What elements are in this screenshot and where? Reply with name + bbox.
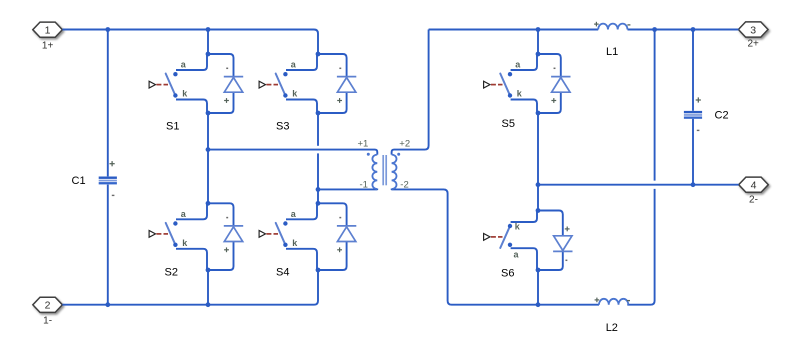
S4 diode triangle [337,227,355,242]
S6 diode plus mark [565,227,570,232]
svg-text:L1: L1 [606,46,618,58]
S6 diode triangle [554,236,572,251]
junction: S2 leg on bottom rail [206,302,211,307]
svg-text:S4: S4 [276,267,289,279]
S2 diode cathode bar [224,225,243,227]
svg-text:-2: -2 [400,179,408,190]
port 1 (1+) connection hexagon [33,22,63,37]
svg-text:2+: 2+ [747,39,759,50]
S3 bottom junction [316,111,321,116]
wire: S3-S4 leg below crossing [317,153,319,203]
S2 cathode wire [176,249,207,270]
S3 switch lever [276,74,286,96]
S5 anode wire [511,54,537,70]
junction: S5 leg on top-right rail [536,27,541,32]
svg-text:S5: S5 [502,118,515,130]
junction: S6 leg on bottom-right rail [536,302,541,307]
wire: S6 leg to bottom-right rail [537,270,539,305]
junction: C2 on out-minus rail [691,182,696,187]
transformer secondary phase dot [397,153,400,156]
capacitor C1 plates [99,177,117,185]
S1 top junction [206,52,211,57]
S1 anode port dot [173,72,177,76]
wire: S1-S2 midpoint leg [207,113,209,203]
S3 gate triangle [259,81,265,88]
S1 cathode port dot [173,93,177,97]
S6 cathode port dot [508,224,512,228]
wire: top-right rail to L1 [429,29,599,31]
S3 diode minus mark [339,68,341,70]
S4 cathode port dot [283,243,287,247]
transformer T1 core [383,155,386,185]
junction: C1 top on top rail [105,27,110,32]
S5 switch lever [500,74,510,96]
S3 anode wire [286,54,317,70]
wire: -1 node to transformer primary bottom [318,188,377,191]
S4 gate dashed line [266,233,278,235]
S3 gate dashed line [266,84,278,86]
S1 diode minus mark [226,68,228,70]
svg-text:+1: +1 [358,138,369,149]
S1 bottom junction [206,111,211,116]
svg-text:S6: S6 [501,268,514,280]
S3 diode plus mark [337,98,342,103]
S3 top junction [316,52,321,57]
S4 diode minus mark [339,217,341,219]
wire: S5 leg from top rail [537,30,539,55]
S1 anode wire [176,54,207,70]
S2 gate triangle [149,231,155,238]
S4 gate triangle [259,231,265,238]
wire: output minus rail to port 4 [538,184,739,186]
S2 diode branch wire lower [208,242,234,271]
transformer primary phase dot [367,153,370,156]
svg-text:1: 1 [45,25,51,37]
S6 top junction [536,268,541,273]
svg-text:C2: C2 [715,110,729,122]
S3 diode cathode bar [337,76,356,78]
svg-text:-1: -1 [360,179,368,190]
S1 diode branch wire upper [208,54,234,77]
S5 diode triangle [552,78,570,93]
S1 diode triangle [224,78,242,93]
S1 cathode wire [176,100,207,114]
S4 diode cathode bar [337,225,356,227]
junction node +1 bridge midpoint [206,147,211,152]
S5 top junction [536,52,541,57]
wire: L2 to output riser lower part [627,189,654,305]
S5 cathode wire [511,100,537,114]
svg-text:3: 3 [750,24,756,36]
S2 anode port dot [173,221,177,225]
S4 top junction [316,201,321,206]
svg-text:2-: 2- [749,195,758,206]
S4 anode port dot [283,221,287,225]
svg-text:L2: L2 [606,322,618,334]
svg-text:+2: +2 [399,138,410,149]
S6 bottom junction [536,208,541,213]
port 2 (1-) connection hexagon [33,297,63,312]
junction: L2 riser on top-right rail [652,27,657,32]
inductor L1 coil [598,24,627,30]
wire: C2 branch upper [692,30,694,111]
S6 anode wire [511,248,537,270]
S6 gate triangle [484,234,490,241]
L1 plus mark [594,22,599,27]
S6 anode port dot [508,243,512,247]
S2 diode triangle [224,227,242,242]
S2 diode plus mark [224,247,229,252]
wire: +1 node to transformer primary top [208,150,377,155]
S6 diode branch wire lower [538,211,563,236]
S3 anode port dot [283,72,287,76]
S3 cathode wire [286,100,317,114]
S2 anode wire [176,203,207,219]
S4 bottom junction [316,268,321,273]
S1 switch lever [166,74,176,96]
svg-text:S1: S1 [166,121,179,133]
C2 minus polarity mark [697,130,700,131]
S5 gate dashed line [491,84,503,86]
C1 minus polarity mark [112,195,115,196]
wire: L1 to port 3 [628,29,739,31]
S6 diode minus mark [565,260,567,262]
S3 diode triangle [337,78,355,93]
S1 gate dashed line [156,84,168,86]
S5 anode port dot [508,72,512,76]
S5 gate triangle [484,81,490,88]
wire: S1 leg from top rail [207,30,209,55]
S2 bottom junction [206,268,211,273]
S5 diode cathode bar [551,76,570,78]
wire: C2 branch lower [692,119,694,185]
svg-text:C1: C1 [72,175,86,187]
svg-text:1-: 1- [43,315,52,326]
wire: S5 to S6 leg [537,113,539,211]
port 4 (2-) connection hexagon [739,177,769,192]
S2 diode minus mark [226,217,228,219]
S3 diode branch wire upper [318,54,347,77]
port 3 (2+) connection hexagon [738,22,768,37]
C2 plus polarity mark [696,97,701,102]
S2 gate dashed line [156,233,168,235]
S1 diode plus mark [224,98,229,103]
S6 switch lever [500,226,510,248]
S2 cathode port dot [173,243,177,247]
S6 diode branch wire upper [538,251,563,270]
S5 diode branch wire lower [538,92,561,113]
wire: C1 branch upper [107,30,109,177]
wire: C1 branch lower [107,185,109,305]
S5 diode branch wire upper [538,54,561,77]
S4 diode branch wire lower [318,242,347,271]
S1 diode branch wire lower [208,92,234,113]
junction: C2 on top-right rail [691,27,696,32]
S4 switch lever [276,223,286,245]
svg-text:2: 2 [45,300,51,312]
S6 diode cathode bar [553,250,572,252]
L2 minus mark [627,300,630,301]
S3 diode branch wire lower [318,92,347,113]
wire: S2 leg to bottom rail [207,270,209,305]
wire: S3 leg above crossing [317,113,319,146]
S6 cathode wire [511,211,537,223]
svg-text:1+: 1+ [42,40,54,51]
L2 plus mark [595,298,600,303]
wire: bottom rail from port 2 up to S4 [62,270,318,305]
C1 plus polarity mark [110,161,115,166]
S4 cathode wire [286,249,317,270]
wire: transformer secondary top (+2) riser to top-right rail [392,30,429,155]
junction node -1 bridge midpoint [316,187,321,192]
S5 cathode port dot [508,93,512,97]
S4 diode plus mark [337,247,342,252]
transformer T1 primary winding [372,155,377,189]
S5 bottom junction [536,111,541,116]
wire: output riser upper part crossing out- rail [654,30,656,181]
inductor L2 coil [599,299,628,305]
S4 diode branch wire upper [318,203,347,226]
svg-text:S2: S2 [165,267,178,279]
S5 diode plus mark [551,98,556,103]
S4 anode wire [286,203,317,219]
svg-text:4: 4 [751,180,757,192]
L1 minus mark [627,24,630,25]
S6 gate dashed line [491,236,503,238]
junction: C1 bottom on bottom rail [105,302,110,307]
transformer T1 secondary winding [392,155,397,189]
S1 diode cathode bar [224,76,243,78]
junction: S1 leg on top rail [206,27,211,32]
S2 diode branch wire upper [208,203,234,226]
S1 gate triangle [149,81,155,88]
S5 diode minus mark [554,68,556,70]
junction: S5-S6 leg on out-minus rail [536,182,541,187]
S2 switch lever [166,223,176,245]
svg-text:S3: S3 [276,121,289,133]
capacitor C2 plates [684,111,702,119]
S3 cathode port dot [283,93,287,97]
wire: top rail from port 1 to S3 leg [62,30,318,55]
S2 top junction [206,201,211,206]
wire: transformer secondary bottom (-2) down to bottom-right rail [392,189,599,305]
